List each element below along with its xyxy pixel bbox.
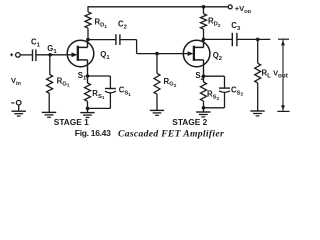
wire CS2 to bottom xyxy=(224,93,226,108)
resistor RS2 xyxy=(201,76,207,108)
wire bottom S2 network xyxy=(204,107,225,109)
Vout arrow line xyxy=(281,39,285,111)
node drain Q2 xyxy=(202,38,206,42)
caption figure number xyxy=(75,128,111,138)
wire C3 to output xyxy=(237,38,270,40)
capacitor C3 xyxy=(232,33,237,46)
wire S2 to CS2 branch xyxy=(204,75,225,77)
ground S1 xyxy=(80,113,94,118)
wire C2 to corner xyxy=(120,39,137,41)
wire bottom S1 network xyxy=(88,107,111,109)
wire CS1 to bottom xyxy=(109,93,111,109)
label S1 xyxy=(78,71,87,82)
label CS2 xyxy=(231,85,244,96)
transistor Q1 xyxy=(67,40,94,67)
wire C1 to gate Q1 xyxy=(36,54,72,56)
ground RG1 xyxy=(42,112,56,117)
label STAGE 2 xyxy=(172,117,207,127)
wire rail to RD1 xyxy=(87,6,89,12)
wire node to RG2 xyxy=(156,54,158,74)
wire node to RL xyxy=(257,39,259,63)
svg-text:STAGE 1: STAGE 1 xyxy=(54,117,89,127)
wire minus terminal to ground xyxy=(18,105,20,111)
wire to gate Q2 xyxy=(137,53,188,55)
wire CS1 branch down xyxy=(109,76,111,88)
wire Q2 source down xyxy=(203,60,205,76)
node S2 xyxy=(202,74,206,78)
node RS2 bottom xyxy=(202,106,206,110)
Vout arrow top bar xyxy=(278,38,289,40)
node RL top xyxy=(256,38,260,42)
label RS1 xyxy=(92,89,105,100)
wire VDD supply rail xyxy=(88,6,228,8)
label RS2 xyxy=(207,90,220,101)
wire RL to ground xyxy=(257,83,259,111)
node G1 xyxy=(48,53,52,57)
label RD1 xyxy=(95,18,108,29)
label RD2 xyxy=(208,17,221,28)
wire to ground S2 xyxy=(203,108,205,112)
node RS1 bottom xyxy=(86,107,90,111)
wire RD1 to drain node xyxy=(87,28,89,39)
capacitor CS1 xyxy=(105,89,116,93)
transistor Q2 xyxy=(183,40,210,67)
ground S2 xyxy=(196,112,210,117)
resistor RD2 xyxy=(201,14,207,29)
wire RG1 to ground xyxy=(48,93,50,112)
wire Q2 drain up xyxy=(203,39,205,47)
wire rail to RD2 xyxy=(203,7,205,14)
wire input to C1 xyxy=(20,54,32,56)
wire CS2 branch down xyxy=(224,76,226,88)
label C2 xyxy=(118,20,128,31)
label Vin xyxy=(11,76,21,87)
terminal VDD xyxy=(228,5,232,9)
label C3 xyxy=(231,21,241,32)
capacitor C1 xyxy=(33,49,36,61)
terminal input minus xyxy=(11,100,21,105)
wire corner down xyxy=(136,40,138,54)
label RL xyxy=(262,69,272,80)
svg-text:Cascaded FET Amplifier: Cascaded FET Amplifier xyxy=(118,128,224,139)
label CS1 xyxy=(119,86,132,97)
resistor RG1 xyxy=(47,75,53,94)
label +VDD xyxy=(235,4,252,15)
wire drain Q2 to C3 xyxy=(204,38,233,40)
label G1 xyxy=(47,44,57,55)
wire RG2 to ground xyxy=(156,94,158,110)
Vout arrow bottom bar xyxy=(277,110,289,112)
wire Q1 source down xyxy=(87,60,89,76)
wire G1 down to RG1 xyxy=(49,55,51,75)
ground RG2 xyxy=(150,110,164,115)
label Q2 xyxy=(213,51,223,62)
node gate Q2 xyxy=(155,52,159,56)
label Q1 xyxy=(100,50,110,61)
terminal input plus xyxy=(10,53,20,58)
ground RL xyxy=(250,111,264,116)
wire drain node to C2 xyxy=(88,39,116,41)
capacitor C2 xyxy=(116,34,120,45)
svg-text:STAGE 2: STAGE 2 xyxy=(172,117,207,127)
svg-text:Fig. 16.43: Fig. 16.43 xyxy=(75,128,111,138)
caption title xyxy=(118,128,224,139)
label RG1 xyxy=(57,76,70,87)
label RG2 xyxy=(164,77,177,88)
resistor RL xyxy=(255,63,261,83)
wire Q1 drain up xyxy=(87,40,89,48)
wire RD2 to drain node xyxy=(203,29,205,39)
resistor RG2 xyxy=(154,73,160,94)
node drain Q1 xyxy=(86,38,90,42)
label C1 xyxy=(31,37,41,48)
wire to ground S1 xyxy=(87,108,89,112)
label STAGE 1 xyxy=(54,117,89,127)
capacitor CS2 xyxy=(219,88,230,92)
label S2 xyxy=(195,71,204,82)
label Vout xyxy=(273,69,289,80)
resistor RS1 xyxy=(85,76,91,108)
resistor RD1 xyxy=(85,12,91,28)
node rail RD2 xyxy=(202,5,206,9)
node S1 xyxy=(86,74,90,78)
wire S1 to CS1 branch xyxy=(88,75,111,77)
ground input xyxy=(12,111,26,116)
